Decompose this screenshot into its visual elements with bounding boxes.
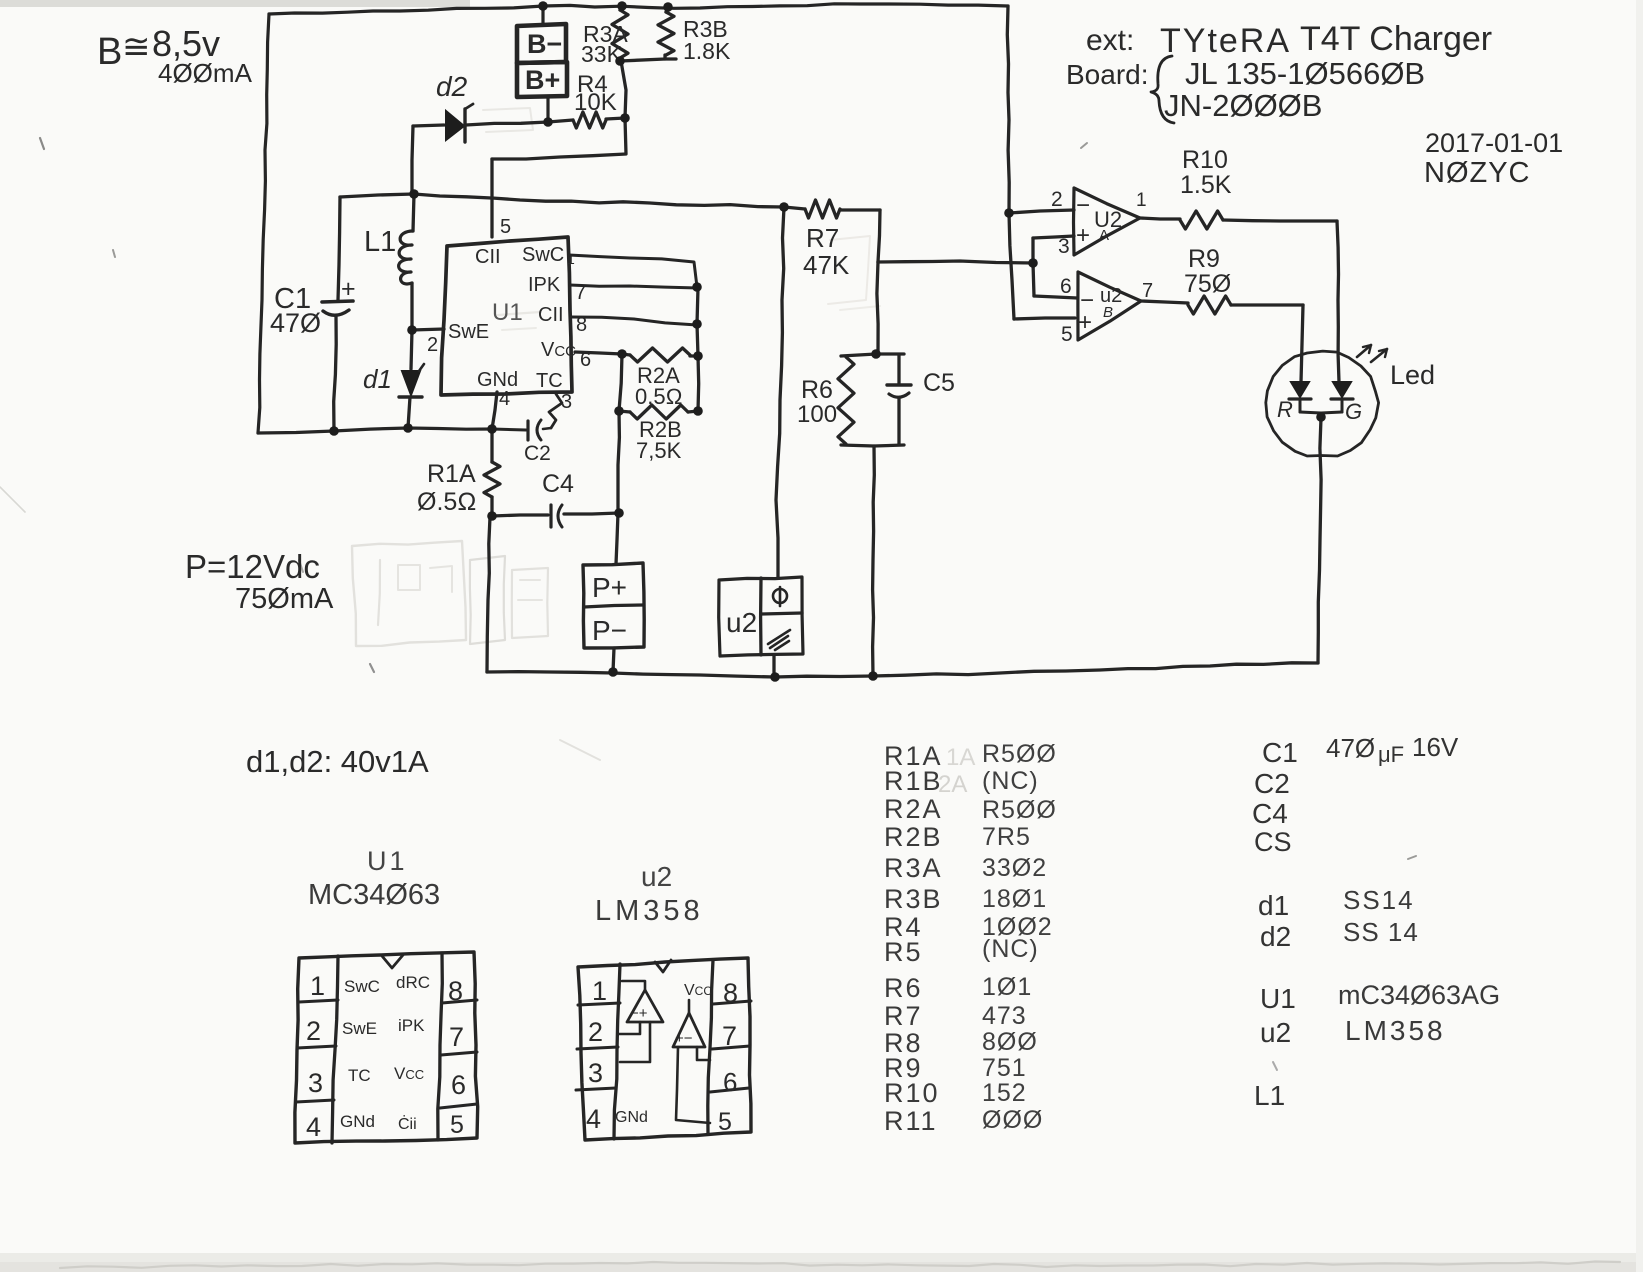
svg-text:R5ØØ: R5ØØ — [982, 740, 1057, 768]
svg-text:G: G — [1345, 399, 1362, 424]
svg-text:SS 14: SS 14 — [1343, 917, 1419, 947]
svg-text:2: 2 — [588, 1017, 603, 1047]
svg-text:R6: R6 — [884, 973, 923, 1003]
svg-text:8ØØ: 8ØØ — [982, 1028, 1038, 1056]
svg-text:4: 4 — [499, 388, 510, 410]
svg-text:iPK: iPK — [398, 1016, 425, 1035]
svg-text:75Ø: 75Ø — [1184, 270, 1231, 298]
svg-text:U1: U1 — [1260, 983, 1296, 1014]
svg-text:JN-2ØØØB: JN-2ØØØB — [1164, 88, 1322, 123]
svg-text:751: 751 — [982, 1054, 1027, 1082]
svg-text:R5ØØ: R5ØØ — [982, 796, 1057, 824]
svg-text:152: 152 — [982, 1079, 1027, 1107]
svg-text:R7: R7 — [806, 223, 839, 253]
svg-text:2A: 2A — [938, 771, 967, 798]
svg-text:8: 8 — [723, 978, 738, 1008]
svg-text:C1: C1 — [1262, 737, 1298, 768]
svg-text:VCC: VCC — [684, 982, 712, 999]
svg-text:1A: 1A — [946, 744, 975, 771]
svg-text:d2: d2 — [1260, 921, 1291, 952]
svg-text:SwE: SwE — [342, 1019, 377, 1038]
svg-text:+: + — [341, 275, 356, 303]
svg-text:CII: CII — [538, 304, 564, 326]
svg-text:47K: 47K — [803, 250, 850, 280]
svg-text:d1: d1 — [1258, 890, 1289, 921]
svg-text:Ø.5Ω: Ø.5Ω — [417, 488, 477, 516]
svg-text:CS: CS — [1254, 827, 1292, 857]
svg-text:5: 5 — [1061, 323, 1073, 346]
svg-text:B: B — [97, 31, 122, 73]
svg-text:GNd: GNd — [615, 1109, 648, 1126]
svg-text:1.8K: 1.8K — [683, 38, 731, 64]
svg-text:3: 3 — [588, 1058, 603, 1088]
svg-text:≅: ≅ — [122, 28, 151, 66]
svg-text:R6: R6 — [801, 376, 833, 404]
svg-text:A: A — [1099, 227, 1109, 244]
svg-text:NØZYC: NØZYC — [1424, 157, 1531, 189]
svg-text:3: 3 — [308, 1068, 323, 1098]
svg-text:4: 4 — [586, 1104, 601, 1134]
svg-text:R11: R11 — [884, 1106, 938, 1136]
svg-text:2: 2 — [306, 1016, 321, 1046]
svg-text:R10: R10 — [884, 1078, 940, 1108]
svg-text:d2: d2 — [436, 71, 468, 102]
svg-text:33Ø2: 33Ø2 — [982, 854, 1047, 882]
svg-text:+−: +− — [675, 1030, 693, 1047]
svg-text:5: 5 — [500, 216, 511, 238]
svg-text:R2A: R2A — [884, 794, 943, 824]
svg-text:C4: C4 — [542, 470, 574, 498]
svg-text:R9: R9 — [1188, 245, 1220, 273]
svg-text:R5: R5 — [884, 937, 923, 967]
svg-text:P+: P+ — [592, 572, 627, 603]
svg-text:d1: d1 — [363, 364, 392, 394]
svg-text:4ØØmA: 4ØØmA — [158, 58, 253, 88]
svg-text:u2: u2 — [1260, 1017, 1291, 1048]
svg-text:GNd: GNd — [340, 1112, 375, 1131]
svg-text:6: 6 — [1060, 275, 1072, 298]
svg-text:P−: P− — [592, 615, 627, 646]
svg-text:(NC): (NC) — [982, 767, 1039, 795]
svg-text:C2: C2 — [524, 442, 551, 465]
svg-text:100: 100 — [797, 401, 837, 428]
svg-text:L1: L1 — [364, 226, 396, 258]
svg-text:2: 2 — [427, 334, 438, 356]
svg-text:T4T Charger: T4T Charger — [1300, 20, 1492, 58]
svg-text:SwE: SwE — [448, 321, 489, 343]
svg-text:(NC): (NC) — [982, 935, 1039, 963]
svg-text:MC34Ø63: MC34Ø63 — [308, 879, 440, 911]
svg-text:2: 2 — [1051, 188, 1063, 211]
svg-text:R3B: R3B — [884, 884, 943, 914]
svg-text:1.5K: 1.5K — [1180, 171, 1232, 199]
svg-text:U1: U1 — [492, 299, 523, 326]
svg-text:u2: u2 — [641, 861, 672, 892]
svg-text:CII: CII — [475, 246, 501, 268]
svg-text:B−: B− — [527, 29, 562, 59]
svg-text:5: 5 — [718, 1108, 732, 1136]
svg-text:SwC: SwC — [344, 977, 380, 996]
svg-text:R1B: R1B — [884, 766, 943, 796]
svg-text:u2: u2 — [726, 607, 757, 638]
svg-text:47Ø: 47Ø — [270, 308, 321, 338]
svg-text:2017-01-01: 2017-01-01 — [1425, 128, 1563, 158]
svg-text:1: 1 — [592, 976, 607, 1006]
svg-text:6: 6 — [723, 1067, 737, 1097]
svg-text:μF: μF — [1378, 742, 1404, 767]
svg-text:dRC: dRC — [396, 973, 430, 992]
svg-text:10K: 10K — [574, 89, 617, 116]
svg-text:4: 4 — [306, 1112, 321, 1142]
svg-text:GNd: GNd — [477, 369, 518, 391]
svg-text:VCC: VCC — [541, 339, 576, 361]
svg-text:R2B: R2B — [884, 822, 943, 852]
svg-text:SS14: SS14 — [1343, 885, 1415, 915]
svg-text:C4: C4 — [1252, 798, 1288, 829]
svg-text:R1A: R1A — [427, 460, 476, 488]
svg-text:5: 5 — [450, 1111, 464, 1139]
svg-text:C5: C5 — [923, 369, 955, 397]
svg-text:1Ø1: 1Ø1 — [982, 973, 1032, 1001]
svg-text:75ØmA: 75ØmA — [235, 583, 334, 615]
svg-text:47Ø: 47Ø — [1326, 733, 1375, 763]
svg-text:+: + — [1078, 309, 1092, 336]
svg-text:1: 1 — [1136, 190, 1147, 211]
svg-text:18Ø1: 18Ø1 — [982, 885, 1047, 913]
svg-text:3: 3 — [1058, 235, 1070, 258]
svg-text:7,5K: 7,5K — [636, 438, 682, 463]
svg-text:6: 6 — [451, 1070, 466, 1100]
svg-text:Led: Led — [1390, 360, 1435, 390]
svg-text:JL 135-1Ø566ØB: JL 135-1Ø566ØB — [1185, 56, 1425, 91]
svg-text:IPK: IPK — [528, 274, 561, 296]
svg-text:d1,d2: 40v1A: d1,d2: 40v1A — [246, 744, 429, 779]
svg-text:B+: B+ — [525, 65, 560, 95]
svg-text:R7: R7 — [884, 1001, 923, 1031]
svg-text:−: − — [1076, 192, 1090, 219]
svg-text:Ċii: Ċii — [398, 1113, 417, 1133]
svg-text:VCC: VCC — [394, 1064, 424, 1083]
svg-text:TYteRA: TYteRA — [1160, 22, 1291, 60]
svg-text:B: B — [1103, 304, 1113, 321]
svg-text:473: 473 — [982, 1002, 1027, 1030]
svg-text:+: + — [1076, 222, 1090, 249]
svg-text:U1: U1 — [367, 846, 408, 876]
svg-text:ext:: ext: — [1086, 24, 1134, 57]
svg-text:mC34Ø63AG: mC34Ø63AG — [1338, 980, 1500, 1010]
svg-text:TC: TC — [348, 1066, 371, 1085]
svg-text:R: R — [1277, 397, 1293, 422]
svg-text:C2: C2 — [1254, 768, 1290, 799]
svg-text:L1: L1 — [1254, 1080, 1285, 1111]
svg-text:7: 7 — [1142, 280, 1153, 302]
svg-text:8: 8 — [448, 976, 463, 1006]
svg-text:16V: 16V — [1412, 732, 1459, 762]
svg-text:SwC: SwC — [522, 244, 564, 266]
svg-text:1: 1 — [310, 971, 325, 1001]
svg-text:1: 1 — [567, 251, 575, 267]
svg-text:R10: R10 — [1182, 146, 1228, 174]
svg-text:7R5: 7R5 — [982, 823, 1031, 851]
svg-text:7: 7 — [722, 1021, 737, 1051]
svg-text:7: 7 — [449, 1022, 464, 1052]
svg-text:LM358: LM358 — [595, 895, 704, 927]
svg-text:LM358: LM358 — [1345, 1015, 1446, 1046]
svg-text:R3A: R3A — [884, 853, 943, 883]
svg-text:Board:: Board: — [1066, 59, 1149, 90]
svg-text:P=12Vdc: P=12Vdc — [185, 548, 320, 585]
svg-text:0.5Ω: 0.5Ω — [635, 384, 682, 409]
svg-text:TC: TC — [536, 370, 563, 392]
svg-text:−+: −+ — [630, 1005, 648, 1022]
svg-text:ØØØ: ØØØ — [982, 1106, 1043, 1134]
